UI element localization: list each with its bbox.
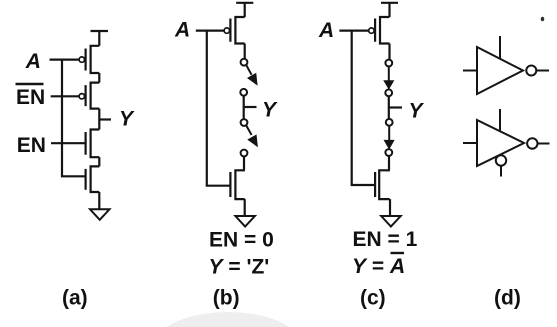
wire Y tap (b) (244, 106, 257, 108)
node label EN-bar (a) (16, 84, 46, 109)
wire input symbol 1 (d) (463, 70, 477, 72)
wire enable top symbol 1 (d) (499, 36, 501, 59)
svg-text:(c): (c) (360, 287, 386, 310)
transistor P1 (a) PMOS gate A (79, 46, 99, 73)
enable bubble bottom symbol 2 (d) (496, 155, 506, 165)
wire A to NMOS gate (b) (207, 31, 231, 186)
switch S1 closed (c) (384, 60, 393, 89)
wire Y tap (a) (99, 118, 111, 120)
svg-text:EN = 0: EN = 0 (209, 229, 274, 252)
wire S2 to NMOS (c) (388, 156, 391, 170)
wire output symbol 1 (d) (536, 70, 549, 72)
svg-text:Y = 'Z': Y = 'Z' (209, 256, 270, 279)
transistor P (b) PMOS gate A (224, 17, 245, 44)
transistor N2 (a) NMOS gate A (86, 166, 100, 192)
wire Y tap (c) (389, 106, 402, 108)
tristate buffer symbol 2 triangle (d) (477, 120, 524, 166)
svg-text:EN: EN (17, 134, 46, 157)
watermark blob bottom (148, 312, 308, 327)
transistor N1 (a) NMOS gate EN (86, 130, 100, 158)
svg-text:A: A (318, 19, 334, 42)
ground (b) (235, 216, 255, 227)
wire N1 to N2 (a) (98, 157, 100, 166)
wire input A (a) (50, 58, 80, 60)
stray ink speck top right (541, 17, 545, 22)
node contact circle S2 bottom (c) (385, 149, 392, 156)
wire output symbol 2 (d) (538, 143, 550, 145)
svg-text:Y: Y (262, 99, 278, 122)
transistor N (c) NMOS gate A (375, 170, 390, 199)
output bubble symbol 1 (d) (526, 66, 536, 76)
transistor N (b) NMOS gate A (230, 170, 244, 199)
switch S2 open (b) (241, 119, 258, 146)
svg-text:Y: Y (409, 99, 425, 122)
svg-text:EN: EN (16, 86, 45, 109)
wire input A (c) (339, 30, 368, 32)
wire between switches with Y tap (c) (388, 96, 390, 119)
ground (a) (90, 209, 110, 220)
VDD rail (b) (236, 3, 253, 17)
wire P2 drain to N1 drain with Y tap (a) (98, 109, 100, 130)
wire VDD-P1 to P2 (a) (98, 73, 100, 83)
tristate buffer symbol 1 triangle (d) (477, 47, 523, 94)
svg-text:Y: Y (119, 108, 135, 131)
output bubble symbol 2 (d) (527, 138, 537, 148)
svg-text:(a): (a) (62, 287, 88, 310)
switch S2 closed (c) (384, 119, 393, 149)
wire enable top symbol 2 (d) (499, 109, 501, 131)
wire NMOS source to ground (b) (244, 199, 246, 216)
wire N2 source to ground (a) (98, 192, 100, 209)
svg-text:EN = 1: EN = 1 (353, 228, 418, 251)
wire between switches with Y tap (b) (243, 96, 245, 119)
svg-text:Y = A: Y = A (352, 255, 405, 278)
wire A to NMOS gate (c) (352, 31, 375, 185)
wire S2 to NMOS (b) (243, 157, 246, 171)
transistor P (c) PMOS gate A (369, 17, 390, 44)
node contact circle S1 bottom (b) (240, 89, 247, 96)
wire input A (b) (196, 30, 224, 32)
switch S1 open (b) (241, 59, 257, 85)
wire PMOS drain to switch 1 (c) (388, 44, 390, 60)
wire input symbol 2 (d) (463, 142, 477, 144)
transistor P2 (a) PMOS gate EN-bar (79, 83, 99, 109)
svg-text:(d): (d) (494, 287, 521, 310)
wire input EN-bar (a) (51, 95, 79, 97)
svg-text:A: A (25, 50, 41, 73)
svg-text:(b): (b) (213, 287, 240, 310)
node contact circle S1 bottom (c) (385, 89, 392, 96)
wire PMOS drain to switch 1 (b) (244, 44, 246, 59)
wire A to N2 gate (a) (62, 60, 86, 177)
wire input EN (a) (51, 142, 86, 144)
VDD rail (a) (91, 31, 109, 46)
VDD rail (c) (381, 3, 398, 17)
node contact circle S2 bottom (b) (241, 150, 248, 157)
caption Y = A-bar (c) (352, 253, 405, 278)
wire enable bottom symbol 2 (d) (500, 166, 502, 177)
ground (c) (381, 216, 401, 227)
svg-text:A: A (174, 19, 190, 42)
wire NMOS source to ground (c) (389, 199, 391, 216)
